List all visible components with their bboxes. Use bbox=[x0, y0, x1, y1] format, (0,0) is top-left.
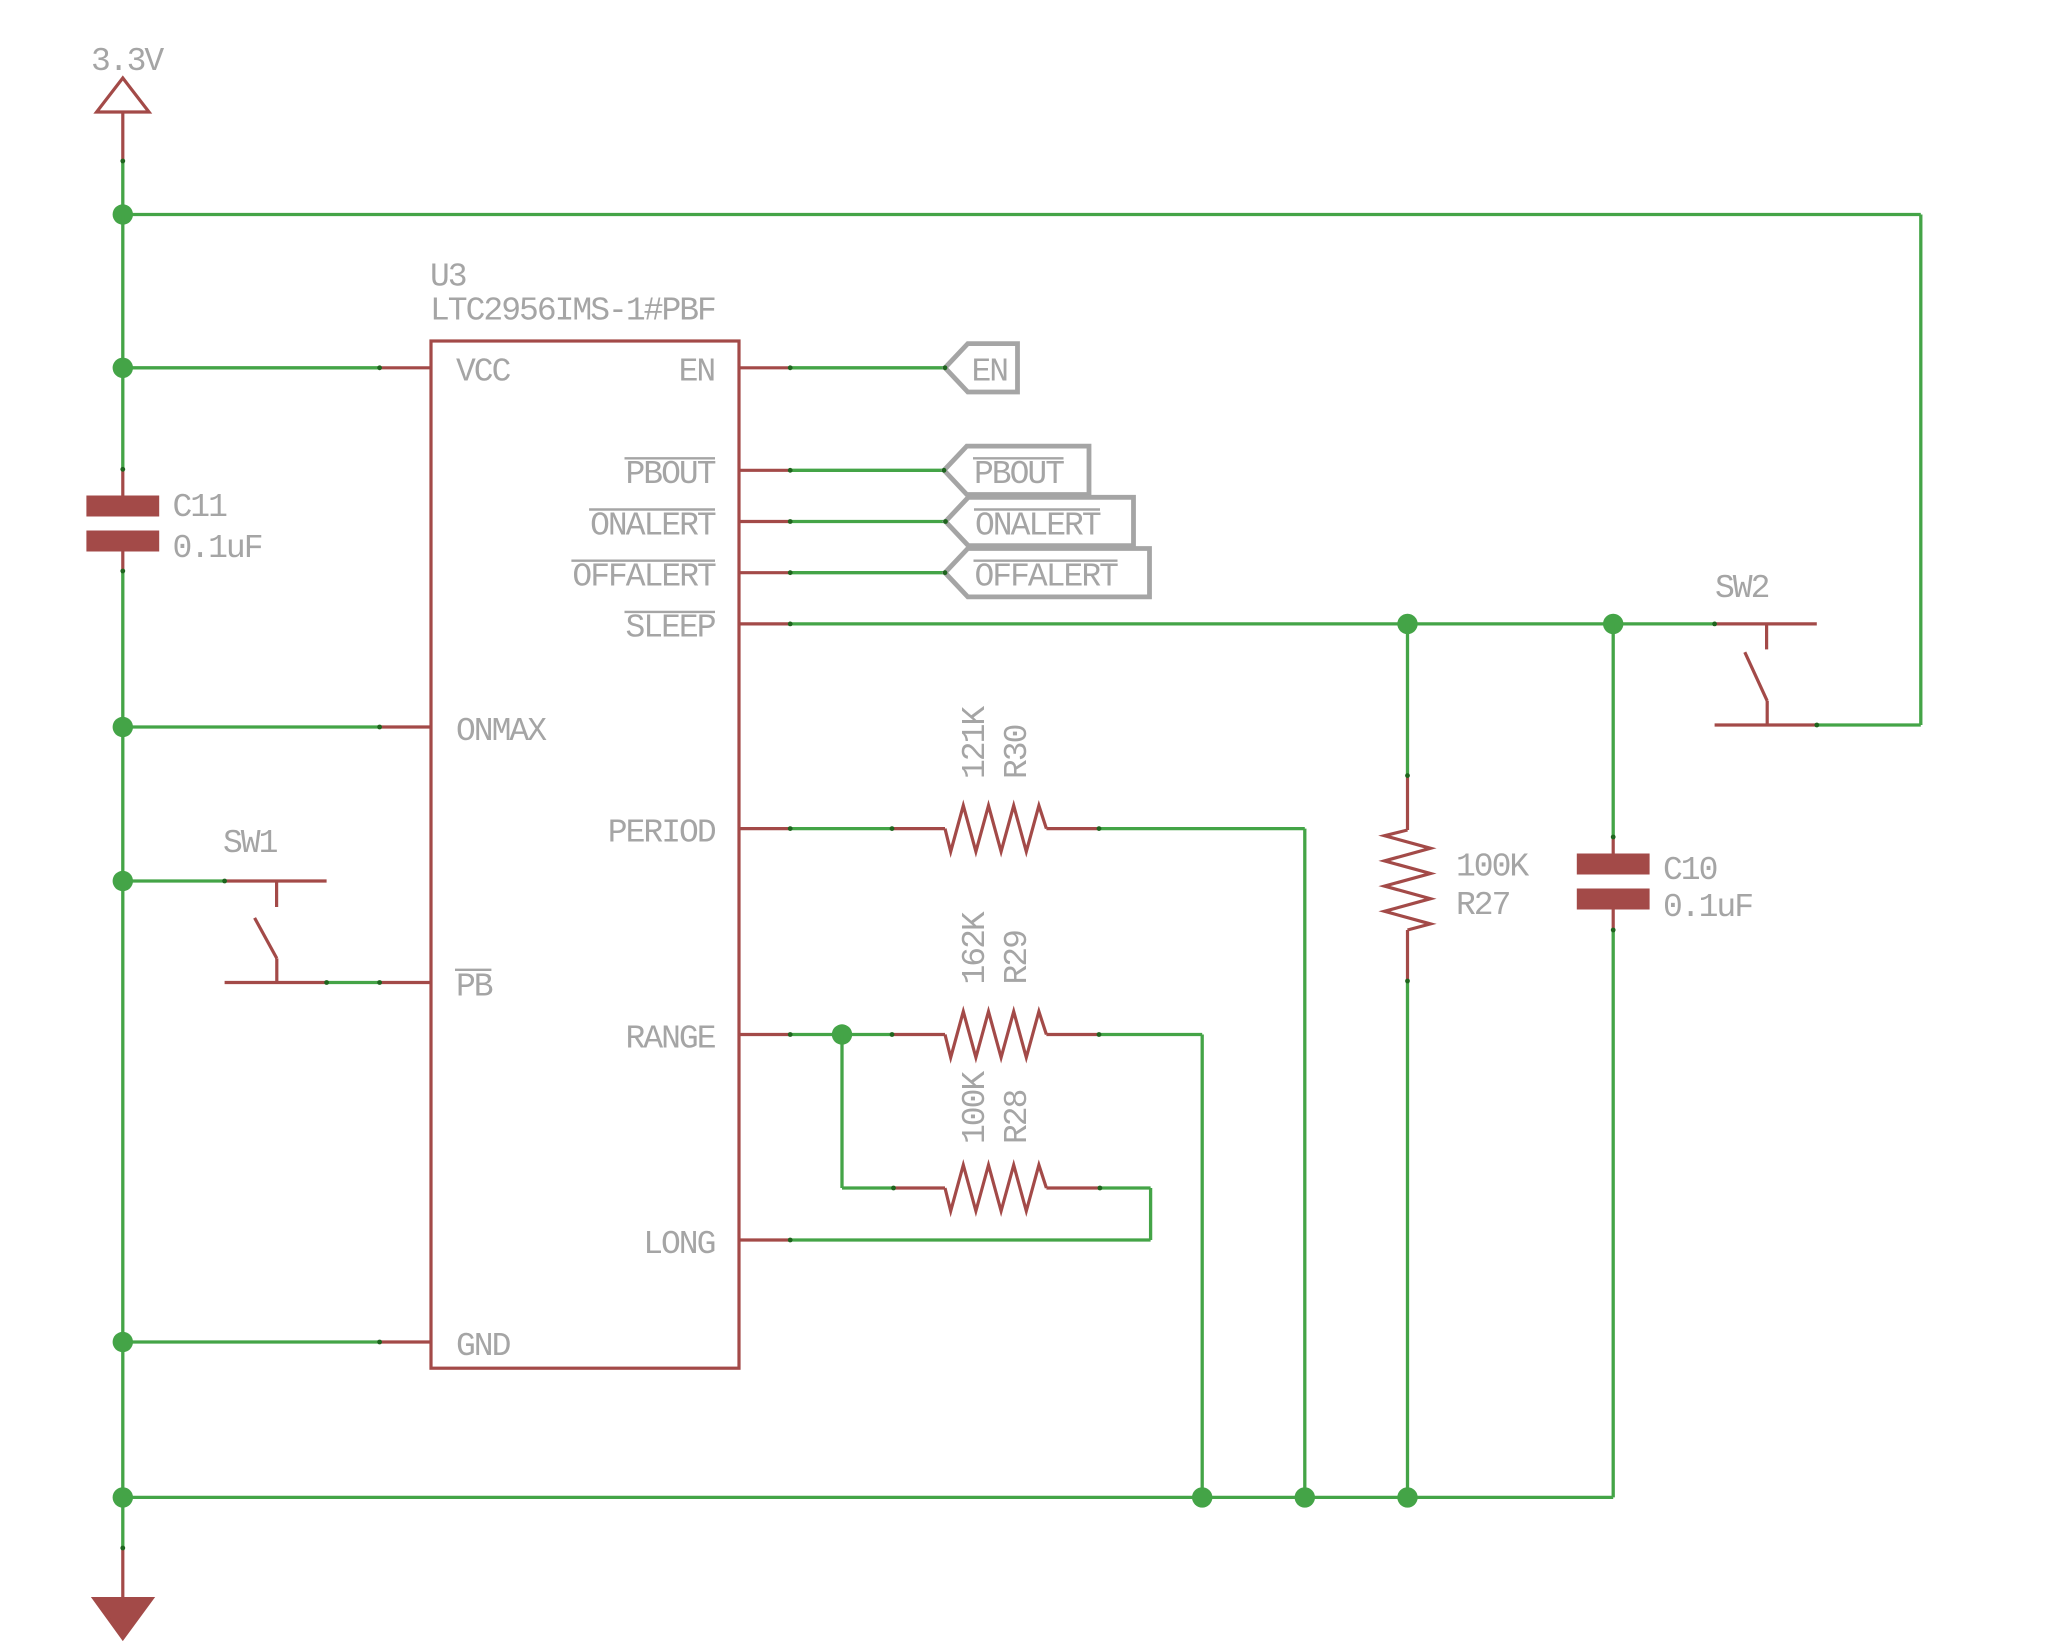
node VCC tap junction bbox=[113, 358, 133, 378]
wire VCC tap bbox=[123, 366, 380, 369]
R27 top lead bbox=[1406, 776, 1409, 830]
SW2 top terminal bbox=[1715, 622, 1817, 625]
U3 pin ONMAX stub bbox=[380, 725, 431, 728]
svg-text:GND: GND bbox=[456, 1328, 511, 1365]
wire left rail upper (3.3V to C11) bbox=[121, 215, 124, 470]
wire bottom rail bbox=[123, 1496, 1613, 1499]
svg-text:PBOUT: PBOUT bbox=[626, 456, 716, 493]
wire SLEEP down to C10 bbox=[1612, 624, 1615, 837]
svg-text:162K: 162K bbox=[957, 911, 994, 984]
svg-text:100K: 100K bbox=[957, 1071, 994, 1144]
wire PERIOD to R30 bbox=[790, 827, 892, 830]
wire PERIOD drop vertical bbox=[1303, 829, 1306, 1498]
resistor R30 121K bbox=[892, 706, 1099, 852]
R29 right lead bbox=[1046, 1033, 1099, 1036]
wire ONMAX tap bbox=[123, 725, 380, 728]
R28 right lead bbox=[1046, 1186, 1100, 1189]
C10 bottom stub bbox=[1612, 910, 1615, 931]
wire PBOUT net bbox=[790, 469, 944, 472]
SW1 actuator diagonal bbox=[255, 918, 277, 959]
R30 zigzag bbox=[945, 806, 1046, 852]
switch SW1 bbox=[223, 825, 327, 983]
SW2 top contact tick bbox=[1765, 624, 1768, 650]
node bottom rail R30 junction bbox=[1295, 1487, 1315, 1507]
U3 pin EN stub bbox=[739, 366, 790, 369]
wire EN net bbox=[790, 366, 945, 369]
R27 zigzag bbox=[1385, 830, 1431, 930]
capacitor C11 bbox=[86, 469, 261, 571]
wire R29 to drop bbox=[1099, 1033, 1202, 1036]
U3 pin LONG stub bbox=[739, 1238, 790, 1241]
svg-text:C10: C10 bbox=[1663, 852, 1717, 889]
svg-text:C11: C11 bbox=[173, 489, 228, 526]
EN flag outline bbox=[945, 344, 1018, 392]
SW2 bottom terminal bbox=[1715, 723, 1817, 726]
U3 pin PBOUT overline bbox=[625, 457, 716, 459]
C11 top stub bbox=[121, 469, 124, 495]
C11 bottom stub bbox=[121, 552, 124, 572]
resistor R28 100K bbox=[894, 1071, 1100, 1211]
svg-text:R28: R28 bbox=[999, 1090, 1036, 1144]
svg-text:SLEEP: SLEEP bbox=[626, 610, 716, 647]
U3 pin PB stub bbox=[380, 981, 431, 984]
node ONMAX junction bbox=[113, 717, 133, 737]
U3 pin OFFALERT overline bbox=[571, 560, 715, 562]
ground pin stub bbox=[121, 1548, 124, 1599]
wire ONALERT net bbox=[790, 520, 945, 523]
U3 pin PB overline bbox=[455, 969, 491, 971]
node bottom rail R29 junction bbox=[1192, 1487, 1212, 1507]
PBOUT flag outline bbox=[944, 446, 1089, 494]
svg-text:0.1uF: 0.1uF bbox=[1663, 889, 1752, 926]
node EN flag bbox=[945, 344, 1018, 392]
svg-text:PBOUT: PBOUT bbox=[974, 456, 1064, 493]
svg-text:SW1: SW1 bbox=[223, 825, 278, 862]
svg-text:R27: R27 bbox=[1456, 887, 1510, 924]
R28 left lead bbox=[894, 1186, 946, 1189]
wire end markers bbox=[120, 159, 1819, 1551]
wire right rail vertical bbox=[1919, 215, 1922, 726]
ONALERT flag outline bbox=[946, 497, 1134, 545]
C10 bottom plate bbox=[1577, 889, 1650, 910]
wire RANGE drop vertical bbox=[1201, 1035, 1204, 1498]
svg-text:R29: R29 bbox=[999, 931, 1036, 985]
wire RANGE junction down to R28 row bbox=[840, 1035, 843, 1189]
node OFFALERT flag bbox=[945, 549, 1150, 597]
capacitor C10 bbox=[1577, 837, 1752, 930]
U3 pin SLEEP stub bbox=[739, 622, 790, 625]
SW2 actuator diagonal bbox=[1745, 652, 1767, 701]
wire GND tap bbox=[123, 1340, 380, 1343]
svg-text:RANGE: RANGE bbox=[626, 1020, 716, 1057]
svg-text:OFFALERT: OFFALERT bbox=[572, 559, 716, 596]
R29 zigzag bbox=[945, 1012, 1046, 1058]
svg-text:LTC2956IMS-1#PBF: LTC2956IMS-1#PBF bbox=[430, 293, 715, 330]
U3 pin SLEEP overline bbox=[625, 611, 716, 613]
wire C10 down to bottom rail corner bbox=[1612, 930, 1615, 1497]
C10 top stub bbox=[1612, 837, 1615, 854]
R30 left lead bbox=[892, 827, 945, 830]
R30 right lead bbox=[1046, 827, 1099, 830]
SW1 top terminal bbox=[225, 879, 327, 882]
ground triangle bbox=[94, 1599, 152, 1639]
wire right rail to SW2 bottom bbox=[1817, 723, 1921, 726]
3.3V triangle bbox=[97, 78, 149, 112]
power symbol 3.3V bbox=[91, 43, 164, 161]
wire 3.3V stub to top rail bbox=[121, 161, 124, 215]
svg-text:EN: EN bbox=[972, 354, 1008, 391]
svg-text:EN: EN bbox=[679, 354, 715, 391]
svg-text:0.1uF: 0.1uF bbox=[173, 530, 262, 567]
resistor R29 162K bbox=[892, 911, 1099, 1057]
wire R30 to drop bbox=[1099, 827, 1305, 830]
U3 pin VCC stub bbox=[380, 366, 431, 369]
R27 bottom lead bbox=[1406, 930, 1409, 981]
wire left rail lower (C11 to bottom) bbox=[121, 571, 124, 1548]
svg-text:121K: 121K bbox=[957, 706, 994, 779]
svg-text:100K: 100K bbox=[1456, 849, 1529, 886]
node SLEEP C10 junction bbox=[1603, 614, 1623, 634]
resistor R27 100K bbox=[1385, 776, 1530, 981]
R29 left lead bbox=[892, 1033, 945, 1036]
C11 bottom plate bbox=[86, 531, 159, 552]
PBOUT flag overline bbox=[973, 457, 1064, 459]
wire R27 down to bottom rail bbox=[1406, 981, 1409, 1497]
3.3V pin stub bbox=[121, 112, 124, 161]
wire R28 corner down to LONG row bbox=[1149, 1188, 1152, 1240]
svg-text:ONALERT: ONALERT bbox=[590, 507, 716, 544]
C10 top plate bbox=[1577, 854, 1650, 875]
wire RANGE to R29 bbox=[790, 1033, 892, 1036]
wire LONG row back to pin bbox=[790, 1238, 1150, 1241]
U3 pin PBOUT stub bbox=[739, 469, 790, 472]
wire R28 row left segment bbox=[842, 1186, 894, 1189]
svg-text:ONALERT: ONALERT bbox=[975, 507, 1101, 544]
wire SLEEP net bbox=[790, 622, 1714, 625]
svg-text:PB: PB bbox=[456, 968, 493, 1005]
wire SLEEP down to R27 bbox=[1406, 624, 1409, 776]
node RANGE junction bbox=[832, 1024, 852, 1044]
SW1 top contact tick bbox=[275, 881, 278, 907]
IC U3 LTC2956IMS-1#PBF bbox=[380, 259, 791, 1369]
node bottom rail R27 junction bbox=[1397, 1487, 1417, 1507]
OFFALERT flag outline bbox=[945, 549, 1150, 597]
svg-text:SW2: SW2 bbox=[1715, 570, 1769, 607]
SW2 actuator vertical bbox=[1766, 701, 1769, 725]
svg-text:R30: R30 bbox=[999, 725, 1036, 779]
U3 pin OFFALERT stub bbox=[739, 571, 790, 574]
U3 pin ONALERT overline bbox=[589, 508, 715, 510]
node GND junction bbox=[113, 1332, 133, 1352]
node bottom rail junction bbox=[113, 1487, 133, 1507]
svg-text:3.3V: 3.3V bbox=[91, 43, 164, 80]
switch SW2 bbox=[1715, 570, 1817, 725]
svg-text:U3: U3 bbox=[430, 259, 466, 296]
node ONALERT flag bbox=[946, 497, 1134, 545]
ONALERT flag overline bbox=[974, 508, 1100, 510]
svg-text:LONG: LONG bbox=[643, 1226, 714, 1263]
svg-text:ONMAX: ONMAX bbox=[456, 713, 547, 750]
U3 body outline bbox=[431, 341, 739, 1368]
wire SW1 top tap bbox=[123, 879, 225, 882]
wire top rail horizontal bbox=[123, 213, 1921, 216]
ground symbol bbox=[94, 1548, 152, 1638]
svg-text:OFFALERT: OFFALERT bbox=[975, 559, 1119, 596]
U3 pin ONALERT stub bbox=[739, 520, 790, 523]
svg-text:VCC: VCC bbox=[456, 354, 511, 391]
svg-text:PERIOD: PERIOD bbox=[608, 814, 716, 851]
SW1 bottom terminal bbox=[225, 981, 327, 984]
U3 pin GND stub bbox=[380, 1340, 431, 1343]
C11 top plate bbox=[86, 496, 159, 517]
OFFALERT flag overline bbox=[974, 560, 1118, 562]
node SW1 junction bbox=[113, 871, 133, 891]
U3 pin RANGE stub bbox=[739, 1033, 790, 1036]
wire OFFALERT net bbox=[790, 571, 945, 574]
wire R28 right to corner bbox=[1100, 1186, 1151, 1189]
node PBOUT flag bbox=[944, 446, 1089, 494]
R28 zigzag bbox=[945, 1165, 1046, 1211]
SW1 actuator vertical bbox=[275, 958, 278, 982]
node SLEEP R27 junction bbox=[1397, 614, 1417, 634]
wire SW1 bottom to PB stub bbox=[327, 981, 380, 984]
node top-left junction bbox=[113, 204, 133, 224]
U3 pin PERIOD stub bbox=[739, 827, 790, 830]
